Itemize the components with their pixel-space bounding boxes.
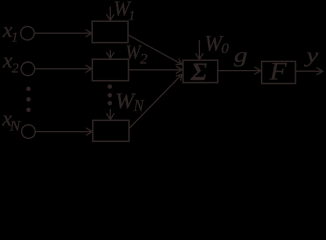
svg-text:g: g: [234, 45, 248, 67]
wire x1 to box W1: [35, 30, 92, 37]
activation box F: [262, 61, 296, 83]
svg-text:1: 1: [128, 9, 135, 24]
svg-text:Σ: Σ: [190, 59, 208, 86]
input node x1: [21, 26, 35, 40]
weight box W2: [92, 59, 128, 80]
svg-text:2: 2: [140, 51, 148, 67]
output wire y: [296, 68, 323, 75]
svg-text:N: N: [133, 96, 145, 115]
input node xN: [22, 125, 36, 139]
WN input arrow: [106, 109, 114, 120]
svg-text:F: F: [269, 57, 288, 86]
svg-text:N: N: [9, 119, 22, 135]
label x2: [2, 48, 19, 77]
W1 input arrow: [106, 7, 114, 21]
wire xN to box WN: [36, 128, 93, 135]
label g: [234, 45, 248, 67]
weight box WN: [93, 120, 129, 141]
summation box U1: [183, 60, 218, 82]
label F: [269, 57, 288, 86]
middle vertical ellipsis: [108, 84, 112, 105]
W2 input arrow: [106, 50, 114, 58]
label W1: [114, 0, 136, 24]
wire box WN to sum (diagonal): [129, 74, 182, 128]
W0 input arrow: [196, 40, 204, 59]
wire x2 to box W2: [35, 65, 92, 72]
wire box W2 to sum: [129, 66, 183, 73]
label W2: [125, 41, 148, 67]
input node x2: [21, 62, 35, 76]
label x1: [2, 17, 19, 45]
wire sum to F (signal g): [218, 67, 261, 74]
svg-text:2: 2: [12, 62, 19, 77]
label xN: [1, 106, 21, 135]
left vertical ellipsis: [26, 87, 30, 112]
weight box W1: [92, 21, 128, 42]
svg-text:y: y: [304, 45, 320, 67]
label WN: [115, 88, 145, 115]
label W0: [205, 31, 230, 58]
wire box W1 to sum (diagonal): [128, 35, 182, 65]
label sigma: [190, 59, 208, 86]
svg-text:0: 0: [221, 41, 229, 57]
svg-text:1: 1: [11, 30, 18, 45]
label y: [304, 45, 320, 67]
